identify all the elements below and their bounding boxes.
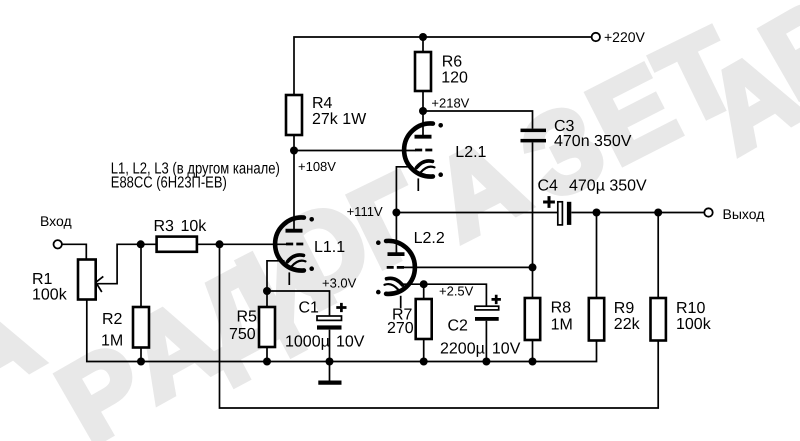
svg-text:R10: R10 [676, 300, 705, 317]
svg-text:+218V: +218V [431, 96, 469, 111]
svg-text:1M: 1M [551, 317, 573, 334]
svg-text:E88CC (6Н23П-ЕВ): E88CC (6Н23П-ЕВ) [111, 174, 227, 191]
svg-text:1000µ: 1000µ [285, 334, 330, 351]
svg-text:470µ 350V: 470µ 350V [569, 178, 647, 195]
svg-text:R5: R5 [237, 308, 258, 325]
svg-text:10V: 10V [492, 341, 521, 358]
svg-text:R8: R8 [551, 300, 572, 317]
svg-text:+108V: +108V [298, 159, 336, 174]
svg-text:+2.5V: +2.5V [439, 283, 474, 298]
svg-text:22k: 22k [614, 316, 641, 333]
svg-text:100k: 100k [676, 316, 712, 333]
svg-text:C2: C2 [448, 318, 469, 335]
svg-text:Выход: Выход [723, 206, 765, 222]
svg-text:R6: R6 [442, 54, 463, 71]
svg-text:10k: 10k [181, 218, 208, 235]
svg-text:1M: 1M [101, 333, 123, 350]
svg-text:R2: R2 [102, 311, 123, 328]
svg-text:+220V: +220V [604, 29, 646, 45]
svg-text:R9: R9 [614, 300, 635, 317]
svg-text:R4: R4 [312, 95, 333, 112]
svg-text:27k 1W: 27k 1W [312, 111, 367, 128]
svg-text:R1: R1 [32, 271, 53, 288]
svg-text:+3.0V: +3.0V [322, 276, 357, 291]
svg-text:Вход: Вход [40, 213, 72, 229]
svg-text:+111V: +111V [347, 204, 383, 219]
svg-text:C1: C1 [299, 300, 320, 317]
svg-text:750: 750 [229, 326, 256, 343]
svg-text:C4: C4 [538, 178, 559, 195]
svg-text:270: 270 [387, 320, 414, 337]
svg-text:R3: R3 [154, 218, 175, 235]
svg-text:100k: 100k [32, 287, 68, 304]
svg-text:L1.1: L1.1 [314, 239, 345, 256]
svg-text:120: 120 [441, 70, 468, 87]
svg-text:470n 350V: 470n 350V [554, 133, 632, 150]
svg-text:L2.2: L2.2 [414, 230, 445, 247]
svg-text:2200µ: 2200µ [440, 341, 485, 358]
svg-text:10V: 10V [336, 334, 365, 351]
svg-text:L2.1: L2.1 [455, 144, 486, 161]
